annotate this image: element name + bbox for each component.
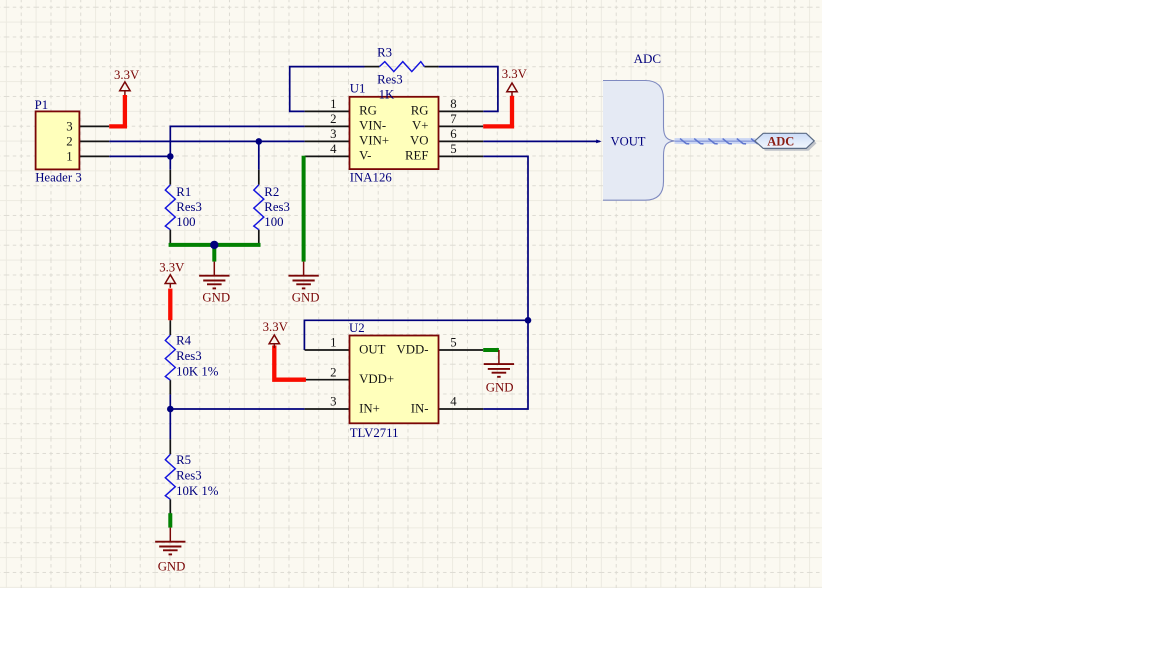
svg-text:5: 5 bbox=[450, 142, 456, 156]
svg-text:3.3V: 3.3V bbox=[114, 68, 140, 82]
svg-text:INA126: INA126 bbox=[350, 170, 393, 184]
svg-text:RG: RG bbox=[359, 104, 377, 118]
svg-text:3.3V: 3.3V bbox=[263, 320, 289, 334]
svg-text:3: 3 bbox=[330, 127, 336, 141]
svg-text:GND: GND bbox=[486, 381, 514, 395]
svg-text:GND: GND bbox=[292, 291, 320, 305]
svg-text:100: 100 bbox=[264, 215, 283, 229]
svg-text:U2: U2 bbox=[349, 321, 365, 335]
svg-text:Res3: Res3 bbox=[176, 200, 202, 214]
svg-text:1: 1 bbox=[66, 150, 72, 164]
svg-text:Res3: Res3 bbox=[377, 73, 403, 87]
svg-text:3.3V: 3.3V bbox=[159, 260, 185, 274]
svg-text:4: 4 bbox=[450, 395, 457, 409]
svg-text:GND: GND bbox=[158, 560, 186, 574]
svg-text:VIN-: VIN- bbox=[359, 119, 386, 133]
svg-text:4: 4 bbox=[330, 142, 337, 156]
svg-text:100: 100 bbox=[176, 215, 195, 229]
svg-text:1: 1 bbox=[330, 336, 336, 350]
svg-text:R4: R4 bbox=[176, 334, 192, 348]
svg-text:5: 5 bbox=[450, 336, 456, 350]
svg-text:VO: VO bbox=[410, 134, 428, 148]
svg-text:RG: RG bbox=[411, 104, 429, 118]
svg-text:2: 2 bbox=[66, 135, 72, 149]
svg-text:VIN+: VIN+ bbox=[359, 134, 389, 148]
svg-text:R1: R1 bbox=[176, 185, 191, 199]
svg-text:R5: R5 bbox=[176, 453, 191, 467]
svg-text:1: 1 bbox=[330, 97, 336, 111]
svg-text:8: 8 bbox=[450, 97, 456, 111]
svg-text:3: 3 bbox=[66, 120, 72, 134]
svg-text:IN-: IN- bbox=[411, 401, 429, 415]
svg-text:ADC: ADC bbox=[634, 51, 661, 66]
svg-text:OUT: OUT bbox=[359, 342, 385, 356]
svg-text:P1: P1 bbox=[35, 98, 49, 112]
svg-text:VDD-: VDD- bbox=[397, 342, 429, 356]
svg-text:VDD+: VDD+ bbox=[359, 372, 394, 386]
svg-text:Res3: Res3 bbox=[264, 200, 290, 214]
svg-text:R3: R3 bbox=[377, 45, 392, 59]
svg-text:GND: GND bbox=[202, 291, 230, 305]
svg-text:U1: U1 bbox=[350, 82, 366, 96]
svg-text:10K 1%: 10K 1% bbox=[176, 364, 219, 378]
svg-text:VOUT: VOUT bbox=[611, 135, 646, 149]
svg-text:2: 2 bbox=[330, 365, 336, 379]
svg-text:Res3: Res3 bbox=[176, 469, 202, 483]
svg-text:V-: V- bbox=[359, 149, 371, 163]
svg-text:3.3V: 3.3V bbox=[502, 67, 528, 81]
svg-text:1K: 1K bbox=[379, 87, 395, 101]
svg-text:Header 3: Header 3 bbox=[35, 171, 82, 185]
svg-text:6: 6 bbox=[450, 127, 457, 141]
svg-text:REF: REF bbox=[405, 149, 428, 163]
svg-text:3: 3 bbox=[330, 395, 336, 409]
svg-text:10K 1%: 10K 1% bbox=[176, 484, 219, 498]
svg-text:7: 7 bbox=[450, 112, 457, 126]
svg-text:2: 2 bbox=[330, 112, 336, 126]
svg-text:TLV2711: TLV2711 bbox=[350, 426, 399, 440]
svg-text:IN+: IN+ bbox=[359, 401, 380, 415]
svg-text:Res3: Res3 bbox=[176, 349, 202, 363]
svg-text:R2: R2 bbox=[264, 185, 279, 199]
svg-text:V+: V+ bbox=[412, 119, 428, 133]
svg-text:ADC: ADC bbox=[767, 135, 794, 149]
